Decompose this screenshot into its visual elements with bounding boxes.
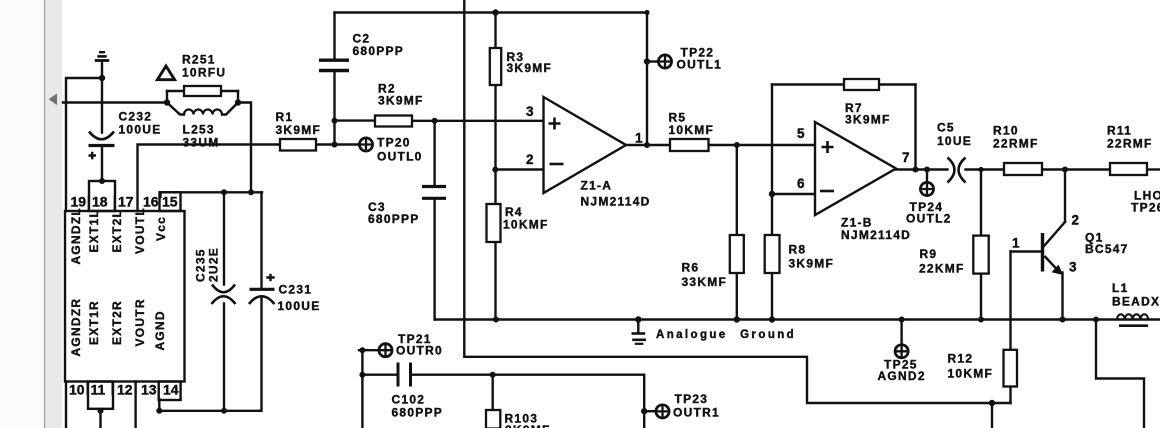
svg-text:3K9MF: 3K9MF bbox=[507, 61, 553, 75]
svg-text:17: 17 bbox=[118, 194, 134, 210]
svg-text:R9: R9 bbox=[920, 247, 938, 261]
svg-text:14: 14 bbox=[163, 382, 179, 398]
svg-text:3: 3 bbox=[1069, 260, 1077, 275]
svg-text:VOUTL: VOUTL bbox=[133, 207, 147, 254]
svg-text:12: 12 bbox=[117, 382, 133, 398]
svg-text:6: 6 bbox=[797, 176, 805, 191]
svg-text:22KMF: 22KMF bbox=[919, 262, 965, 276]
svg-text:680PPP: 680PPP bbox=[353, 44, 405, 58]
svg-text:NJM2114D: NJM2114D bbox=[841, 228, 911, 242]
svg-text:AGNDZL: AGNDZL bbox=[69, 207, 83, 265]
svg-text:AGND2: AGND2 bbox=[878, 369, 926, 383]
svg-text:1: 1 bbox=[1012, 236, 1020, 251]
svg-text:R6: R6 bbox=[682, 261, 700, 275]
svg-text:R11: R11 bbox=[1107, 124, 1132, 138]
svg-text:680PPP: 680PPP bbox=[368, 212, 420, 226]
svg-text:2U2E: 2U2E bbox=[207, 247, 221, 282]
svg-text:BEADX1: BEADX1 bbox=[1112, 295, 1160, 309]
svg-text:OUTL0: OUTL0 bbox=[377, 150, 423, 164]
svg-text:10KMF: 10KMF bbox=[669, 123, 715, 137]
svg-text:C102: C102 bbox=[392, 393, 426, 407]
svg-text:10RFU: 10RFU bbox=[182, 66, 226, 80]
svg-text:33KMF: 33KMF bbox=[682, 275, 728, 289]
svg-text:2: 2 bbox=[526, 152, 534, 167]
svg-text:EXT1R: EXT1R bbox=[87, 300, 101, 345]
svg-text:OUTR0: OUTR0 bbox=[396, 344, 443, 358]
svg-text:7: 7 bbox=[902, 150, 910, 165]
svg-text:100UE: 100UE bbox=[119, 123, 162, 137]
svg-text:R12: R12 bbox=[948, 352, 974, 366]
svg-text:EXT1L: EXT1L bbox=[87, 209, 101, 253]
svg-text:1: 1 bbox=[635, 131, 643, 146]
svg-text:C231: C231 bbox=[279, 283, 313, 297]
svg-text:BC547: BC547 bbox=[1085, 242, 1129, 256]
svg-text:10KMF: 10KMF bbox=[948, 367, 994, 381]
svg-text:10UE: 10UE bbox=[937, 134, 972, 148]
svg-text:C232: C232 bbox=[119, 110, 153, 124]
svg-text:L1: L1 bbox=[1112, 281, 1129, 295]
svg-text:EXT2L: EXT2L bbox=[110, 209, 124, 253]
svg-text:Vcc: Vcc bbox=[154, 216, 168, 241]
svg-text:NJM2114D: NJM2114D bbox=[581, 195, 651, 209]
svg-text:AGND: AGND bbox=[153, 310, 167, 350]
svg-text:R10: R10 bbox=[993, 124, 1019, 138]
svg-text:5: 5 bbox=[797, 126, 805, 141]
svg-text:100UE: 100UE bbox=[278, 299, 321, 313]
svg-text:3K9MF: 3K9MF bbox=[505, 423, 551, 428]
svg-text:2: 2 bbox=[1072, 213, 1080, 228]
svg-text:3K9MF: 3K9MF bbox=[276, 123, 322, 137]
svg-text:Analogue Ground: Analogue Ground bbox=[656, 329, 796, 341]
svg-text:3K9MF: 3K9MF bbox=[789, 257, 835, 271]
svg-text:AGNDZR: AGNDZR bbox=[69, 298, 83, 357]
svg-text:R251: R251 bbox=[182, 53, 216, 67]
svg-text:TP26O: TP26O bbox=[1131, 201, 1160, 215]
svg-text:15: 15 bbox=[162, 194, 178, 210]
svg-text:Z1-A: Z1-A bbox=[581, 179, 613, 193]
svg-text:R8: R8 bbox=[789, 243, 807, 257]
svg-text:C5: C5 bbox=[937, 121, 955, 135]
svg-text:OUTL1: OUTL1 bbox=[677, 58, 723, 72]
svg-text:C235: C235 bbox=[194, 248, 208, 282]
svg-text:3: 3 bbox=[526, 104, 534, 119]
svg-text:VOUTR: VOUTR bbox=[133, 298, 147, 346]
svg-text:18: 18 bbox=[92, 194, 108, 210]
svg-text:EXT2R: EXT2R bbox=[110, 300, 124, 345]
svg-text:TP20: TP20 bbox=[377, 136, 411, 150]
svg-text:11: 11 bbox=[91, 382, 106, 398]
svg-text:22RMF: 22RMF bbox=[993, 137, 1039, 151]
svg-text:OUTR1: OUTR1 bbox=[673, 406, 720, 420]
svg-text:22RMF: 22RMF bbox=[1107, 137, 1153, 151]
svg-text:680PPP: 680PPP bbox=[392, 406, 444, 420]
svg-text:13: 13 bbox=[141, 382, 157, 398]
svg-text:10KMF: 10KMF bbox=[503, 218, 549, 232]
svg-text:10: 10 bbox=[69, 382, 85, 398]
svg-text:L253: L253 bbox=[183, 123, 215, 137]
svg-text:OUTL2: OUTL2 bbox=[906, 212, 952, 226]
svg-text:3K9MF: 3K9MF bbox=[378, 94, 424, 108]
svg-text:3K9MF: 3K9MF bbox=[845, 113, 891, 127]
svg-text:R1: R1 bbox=[276, 110, 294, 124]
svg-text:TP23: TP23 bbox=[675, 392, 709, 406]
svg-text:33UM: 33UM bbox=[183, 136, 220, 150]
